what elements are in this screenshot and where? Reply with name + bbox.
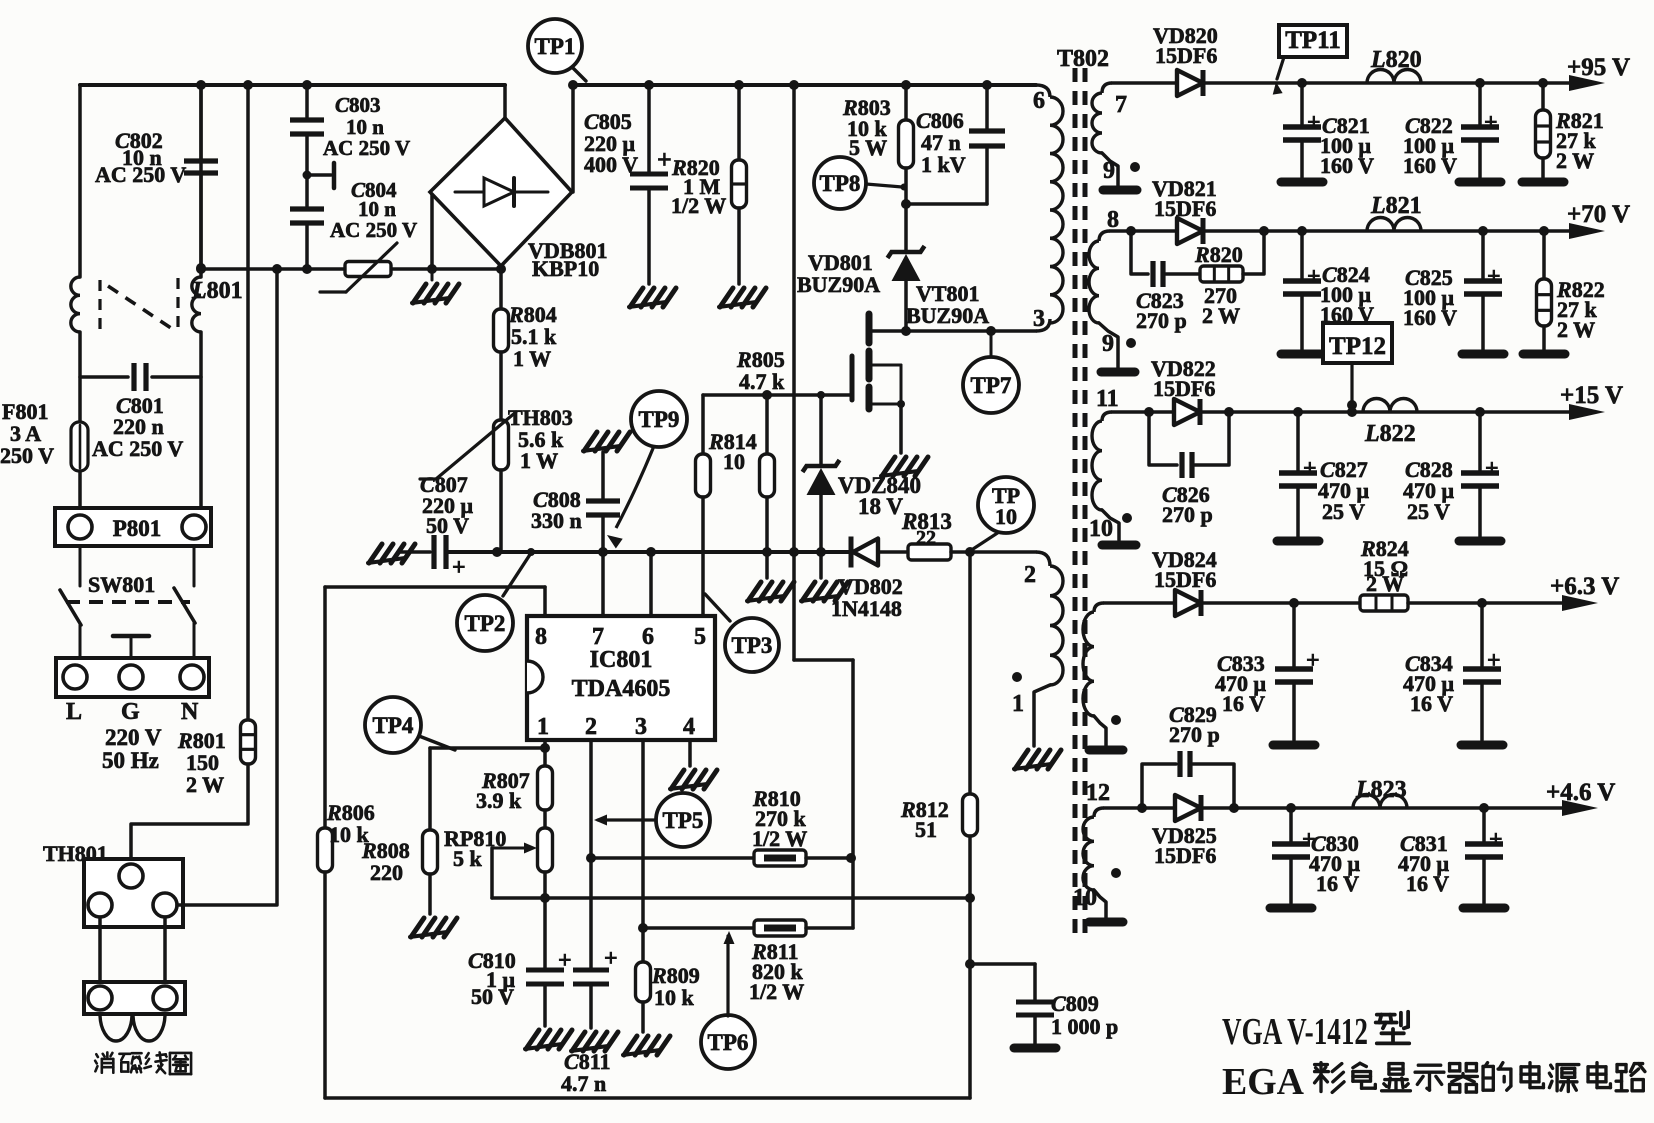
node L801 top of winding b bbox=[196, 263, 206, 273]
label C808 value bbox=[531, 487, 582, 533]
svg-text:TP7: TP7 bbox=[971, 373, 1012, 398]
output arrow +70V bbox=[1569, 223, 1605, 239]
resistor R811 bbox=[754, 920, 806, 936]
node R810 right junction bbox=[846, 853, 856, 863]
label R810 value bbox=[752, 786, 807, 851]
label C824 value bbox=[1320, 262, 1374, 327]
output arrow +15V bbox=[1569, 404, 1605, 420]
wire left column mid bbox=[78, 332, 82, 422]
svg-text:TP4: TP4 bbox=[373, 713, 414, 738]
label L820 bbox=[1370, 47, 1422, 73]
svg-text:12: 12 bbox=[1086, 780, 1110, 806]
wire rail main bbox=[446, 550, 851, 554]
diode VD820 bbox=[1177, 70, 1203, 96]
node drain VD801 junction bbox=[901, 326, 911, 336]
pin 10b label bbox=[1073, 885, 1097, 911]
node rail R814 junction bbox=[762, 547, 772, 557]
wire row2 main bbox=[1203, 229, 1573, 233]
pin 11 label bbox=[1096, 386, 1119, 412]
label C821 value bbox=[1320, 113, 1374, 178]
svg-text:EGA: EGA bbox=[1222, 1061, 1305, 1103]
node pin3 R811 junction bbox=[638, 923, 648, 933]
label mains value bbox=[102, 725, 162, 773]
svg-text:15DF6: 15DF6 bbox=[1154, 843, 1216, 868]
node row5 snubber left bbox=[1137, 803, 1147, 813]
label R813 value bbox=[901, 509, 952, 549]
svg-text:+: + bbox=[1487, 264, 1501, 290]
svg-text:+: + bbox=[452, 555, 466, 581]
wire R812 lower bbox=[968, 836, 972, 1098]
ground winding 10b bbox=[1089, 918, 1123, 927]
svg-text:6: 6 bbox=[642, 624, 654, 650]
node rail VDZ junction bbox=[816, 547, 826, 557]
snubber C823 R820b bbox=[1131, 231, 1264, 287]
wire R809 lower bbox=[641, 1002, 645, 1032]
ground winding 10 bbox=[1102, 541, 1136, 550]
node rail feedback junction bbox=[789, 547, 799, 557]
node row2 snubber right bbox=[1259, 226, 1269, 236]
wire C808 upper bbox=[601, 452, 605, 499]
wire C805 lower bbox=[647, 188, 651, 284]
transformer primary winding 6-3 bbox=[1050, 97, 1063, 323]
node row2 C825 bbox=[1478, 226, 1488, 236]
wire row4 main bbox=[1203, 601, 1360, 605]
svg-text:1N4148: 1N4148 bbox=[831, 596, 902, 621]
diode VDZ840 bbox=[803, 395, 840, 552]
node row1 C822 bbox=[1475, 78, 1485, 88]
svg-text:16 V: 16 V bbox=[1316, 871, 1359, 896]
node row5 C830 bbox=[1286, 803, 1296, 813]
svg-text:KBP10: KBP10 bbox=[532, 256, 599, 281]
label C803 value bbox=[323, 93, 410, 160]
label R820 value bbox=[671, 155, 726, 218]
wire C809 lower bbox=[1033, 1015, 1037, 1044]
ground R820 bbox=[719, 288, 766, 307]
svg-text:7: 7 bbox=[1115, 92, 1127, 118]
node row1 C821 bbox=[1297, 78, 1307, 88]
svg-text:L: L bbox=[66, 699, 82, 725]
label R811 value bbox=[749, 939, 804, 1004]
wire pin2 column bbox=[589, 740, 593, 968]
node feedback R812 junction bbox=[965, 893, 975, 903]
wire row3 main bbox=[1200, 410, 1573, 414]
capacitor C804 bbox=[290, 209, 324, 223]
svg-text:2 W: 2 W bbox=[1556, 148, 1594, 173]
output arrow +6.3V bbox=[1562, 595, 1598, 611]
pin 7 label bbox=[1115, 92, 1127, 118]
svg-text:P801: P801 bbox=[113, 516, 162, 541]
test point TP2 bbox=[457, 548, 535, 651]
svg-text:+15 V: +15 V bbox=[1560, 382, 1623, 409]
svg-text:270 p: 270 p bbox=[1169, 722, 1220, 747]
svg-text:+: + bbox=[1484, 110, 1498, 136]
node pin1 TP4 junction bbox=[540, 743, 550, 753]
resistor R820 bbox=[732, 160, 747, 208]
node AC line junction L801 bbox=[196, 264, 206, 274]
label R812 value bbox=[900, 797, 949, 842]
pin 2 label bbox=[1024, 562, 1036, 588]
wire C802 lower bbox=[199, 173, 203, 268]
svg-text:3.9 k: 3.9 k bbox=[476, 788, 522, 813]
wire rail right bbox=[951, 552, 1050, 566]
wire left column lower bbox=[78, 471, 82, 512]
pin 3 label bbox=[635, 714, 647, 740]
wire TH803 lower bbox=[499, 470, 503, 552]
svg-text:VGA V-1412: VGA V-1412 bbox=[1222, 1011, 1368, 1053]
label C826 value bbox=[1162, 482, 1213, 527]
wire row5 main bbox=[1203, 806, 1566, 810]
wire source to ground bbox=[899, 404, 903, 453]
svg-text:+: + bbox=[1303, 456, 1317, 482]
pin 4 label bbox=[683, 714, 695, 740]
svg-text:330 n: 330 n bbox=[531, 508, 582, 533]
svg-text:TP11: TP11 bbox=[1285, 27, 1341, 54]
node row3 C828 bbox=[1475, 407, 1485, 417]
wire R807-RP810 bbox=[543, 810, 547, 828]
svg-text:2 W: 2 W bbox=[1202, 303, 1240, 328]
test point TP4 bbox=[365, 697, 455, 753]
svg-text:15DF6: 15DF6 bbox=[1153, 376, 1215, 401]
capacitor C809 bbox=[1016, 1002, 1054, 1015]
wire left frame lower bbox=[323, 872, 327, 1098]
wire pin1 lower bbox=[543, 872, 547, 968]
svg-text:8: 8 bbox=[535, 624, 547, 650]
wire R820 lower bbox=[737, 208, 741, 284]
label F801 value bbox=[0, 399, 54, 468]
svg-text:+70 V: +70 V bbox=[1567, 201, 1630, 228]
capacitor C830 bbox=[1270, 808, 1316, 908]
svg-text:15DF6: 15DF6 bbox=[1155, 43, 1217, 68]
label C802 value bbox=[95, 128, 186, 187]
node R803 C806 junction bbox=[901, 199, 911, 209]
ground winding 1 bbox=[1014, 750, 1061, 769]
output arrow +95V bbox=[1569, 75, 1605, 91]
wire pin8 stub bbox=[543, 587, 547, 616]
label VD825 bbox=[1152, 823, 1217, 868]
wire row4 left bbox=[1104, 601, 1175, 605]
svg-text:AC 250 V: AC 250 V bbox=[330, 218, 417, 242]
wire degauss right bbox=[163, 917, 167, 982]
diode VD821 bbox=[1177, 218, 1203, 244]
svg-text:160 V: 160 V bbox=[1403, 305, 1457, 330]
resistor R810 bbox=[754, 850, 806, 866]
terminal G bar bbox=[113, 636, 149, 658]
svg-text:TP9: TP9 bbox=[639, 407, 680, 432]
phase dot winding 9b bbox=[1126, 338, 1136, 348]
wire pin3 column bbox=[641, 740, 645, 962]
potentiometer RP810 bbox=[492, 828, 553, 872]
svg-text:+: + bbox=[657, 145, 672, 174]
svg-text:3: 3 bbox=[1033, 306, 1045, 332]
svg-text:1 kV: 1 kV bbox=[921, 152, 966, 177]
svg-text:AC 250 V: AC 250 V bbox=[323, 136, 410, 160]
node rail R804 junction bbox=[492, 547, 502, 557]
resistor R824 bbox=[1360, 595, 1408, 611]
node row2 C824 bbox=[1297, 226, 1307, 236]
phase dot winding 6v bbox=[1111, 715, 1121, 725]
svg-text:1 W: 1 W bbox=[513, 346, 551, 371]
wire L801 right column bbox=[199, 85, 203, 512]
wire TP4 line bbox=[430, 746, 545, 750]
svg-text:2 W: 2 W bbox=[186, 772, 224, 797]
label L823 bbox=[1355, 777, 1407, 803]
resistor R804 bbox=[494, 309, 509, 352]
svg-text:15DF6: 15DF6 bbox=[1154, 196, 1216, 221]
label C822 value bbox=[1403, 113, 1457, 178]
ground pin4 bbox=[670, 770, 717, 789]
node row4 C834 bbox=[1477, 598, 1487, 608]
wire row4 right bbox=[1408, 601, 1566, 605]
node bridge AC2 junction bbox=[427, 264, 437, 274]
svg-text:10: 10 bbox=[1073, 885, 1097, 911]
svg-text:1 000 p: 1 000 p bbox=[1051, 1014, 1118, 1039]
pin 12 label bbox=[1086, 780, 1110, 806]
node C803 C804 tap bbox=[303, 163, 335, 188]
svg-text:1: 1 bbox=[1012, 691, 1024, 717]
label C829 value bbox=[1169, 702, 1220, 747]
svg-text:5 k: 5 k bbox=[453, 846, 483, 871]
svg-text:160 V: 160 V bbox=[1403, 153, 1457, 178]
capacitor C831 bbox=[1463, 808, 1505, 908]
wire top bus right segment bbox=[573, 85, 1050, 97]
label VD822 bbox=[1151, 356, 1216, 401]
svg-text:+: + bbox=[1306, 648, 1320, 674]
label R809 value bbox=[651, 963, 700, 1010]
degauss coil connector bbox=[84, 982, 185, 1014]
pin 9 label bbox=[1103, 158, 1115, 184]
capacitor C803 bbox=[290, 120, 324, 134]
wire C806 lower bbox=[906, 146, 987, 204]
svg-text:16 V: 16 V bbox=[1410, 691, 1453, 716]
label C807 value bbox=[420, 472, 474, 538]
label T802 bbox=[1057, 46, 1109, 72]
svg-text:TP12: TP12 bbox=[1329, 333, 1386, 360]
node top bus junction R803 bbox=[901, 80, 911, 90]
capacitor C825 bbox=[1462, 231, 1504, 354]
svg-text:16 V: 16 V bbox=[1222, 691, 1265, 716]
label +6.3V bbox=[1550, 573, 1619, 600]
wire rail diode to R813 bbox=[878, 550, 908, 554]
wire left column upper bbox=[78, 85, 82, 277]
pin 2 label bbox=[585, 714, 597, 740]
wire AC line bbox=[201, 267, 501, 271]
node row5 C831 bbox=[1479, 803, 1489, 813]
label C804 value bbox=[330, 178, 417, 242]
degauss coil loops bbox=[100, 1014, 165, 1041]
wire C809 link bbox=[970, 964, 1035, 1000]
pin 3 label bbox=[1033, 306, 1045, 332]
wire R808 lower bbox=[428, 874, 432, 914]
node top bus junction R801 line bbox=[243, 80, 253, 90]
svg-text:3: 3 bbox=[635, 714, 647, 740]
diode VD822 bbox=[1174, 399, 1200, 425]
node gate VDZ junction bbox=[817, 391, 825, 399]
phase dot winding 10b bbox=[1111, 868, 1121, 878]
pin 6 label bbox=[642, 624, 654, 650]
wire R803 upper bbox=[904, 85, 908, 120]
svg-text:18 V: 18 V bbox=[858, 494, 903, 519]
wire pin1 stub bbox=[543, 740, 547, 766]
svg-text:BUZ90A: BUZ90A bbox=[906, 303, 989, 328]
svg-text:51: 51 bbox=[915, 817, 937, 842]
ground R808 bbox=[410, 918, 457, 937]
label VT801 bbox=[906, 281, 989, 328]
resistor R808 bbox=[423, 830, 438, 874]
label +4.6V bbox=[1546, 779, 1615, 806]
wire pin5 link bbox=[794, 552, 853, 928]
svg-text:1: 1 bbox=[537, 714, 549, 740]
label R807 value bbox=[476, 768, 530, 813]
node R812 C809 junction bbox=[965, 959, 975, 969]
label TH803 value bbox=[508, 405, 573, 473]
resistor R809 bbox=[636, 962, 651, 1002]
svg-text:11: 11 bbox=[1096, 386, 1119, 412]
svg-text:5: 5 bbox=[694, 624, 706, 650]
svg-text:15DF6: 15DF6 bbox=[1154, 567, 1216, 592]
wire feedback line bbox=[492, 896, 970, 900]
resistor R805 bbox=[696, 395, 711, 616]
resistor R813 bbox=[908, 544, 951, 560]
svg-text:+: + bbox=[1485, 456, 1499, 482]
capacitor C828 bbox=[1459, 412, 1501, 541]
test point TP12 bbox=[1323, 323, 1392, 410]
label VD821 bbox=[1152, 176, 1217, 221]
fuse F801 bbox=[71, 422, 88, 471]
wire pin4 stub bbox=[688, 740, 692, 766]
svg-text:R820: R820 bbox=[1194, 242, 1243, 267]
svg-text:AC 250 V: AC 250 V bbox=[92, 436, 183, 461]
svg-text:220: 220 bbox=[370, 860, 403, 885]
node row5 snubber right bbox=[1229, 803, 1239, 813]
secondary winding 7-9 bbox=[1092, 83, 1118, 186]
svg-text:SW801: SW801 bbox=[88, 572, 155, 597]
wire R804-TH803 bbox=[499, 352, 503, 420]
label C811 value bbox=[561, 1049, 610, 1096]
switch SW801 link bbox=[66, 600, 190, 604]
wire C811 lower bbox=[589, 984, 593, 1028]
svg-text:10: 10 bbox=[1089, 516, 1113, 542]
wire C802 upper bbox=[199, 85, 203, 159]
wire R811 right bbox=[806, 926, 853, 930]
snubber C829 bbox=[1142, 751, 1234, 808]
pin 8 label bbox=[535, 624, 547, 650]
svg-text:1/2 W: 1/2 W bbox=[752, 826, 807, 851]
ground C805 bbox=[629, 288, 676, 307]
transformer feedback winding 2-1 bbox=[1050, 566, 1063, 685]
wire R820 upper bbox=[737, 85, 741, 160]
wire row2 left bbox=[1110, 229, 1177, 233]
svg-text:AC 250 V: AC 250 V bbox=[95, 162, 186, 187]
node row3 snubber left bbox=[1144, 407, 1154, 417]
wire C805 upper bbox=[647, 85, 651, 172]
svg-text:4.7 n: 4.7 n bbox=[561, 1071, 606, 1096]
wire TH801 return bbox=[177, 269, 277, 905]
pin 6 label bbox=[1033, 88, 1045, 114]
title line 1 bbox=[1222, 1011, 1409, 1053]
wire R804 upper bbox=[499, 269, 503, 309]
label degauss coil bbox=[95, 1052, 191, 1074]
ground C808 bbox=[583, 432, 630, 451]
capacitor C807 bbox=[434, 535, 466, 581]
thermistor TH803 bbox=[420, 412, 516, 479]
resistor R814 bbox=[760, 395, 775, 552]
inductor L823 bbox=[1353, 795, 1407, 809]
inductor L822 bbox=[1363, 399, 1417, 413]
test point TP11 bbox=[1273, 25, 1347, 95]
svg-text:400 V: 400 V bbox=[584, 152, 638, 177]
resistor R822 bbox=[1523, 231, 1565, 354]
label +70V bbox=[1567, 201, 1630, 228]
label SW801 bbox=[88, 572, 155, 597]
ground VT801 source bbox=[881, 457, 928, 476]
label TH801 bbox=[43, 841, 108, 866]
test point TP9 bbox=[607, 391, 687, 549]
label VDZ840 value bbox=[838, 473, 921, 519]
pin 1 label bbox=[537, 714, 549, 740]
node row3 snubber right bbox=[1224, 407, 1234, 417]
svg-text:22: 22 bbox=[916, 527, 936, 549]
label R803 value bbox=[842, 95, 891, 160]
capacitor C827 bbox=[1277, 412, 1319, 541]
label VD802 bbox=[831, 574, 903, 621]
label C805 value bbox=[584, 109, 638, 177]
svg-text:16 V: 16 V bbox=[1406, 871, 1449, 896]
node rail pin6 junction bbox=[646, 547, 656, 557]
wire row1 left bbox=[1112, 81, 1177, 85]
node drain TP7 junction bbox=[986, 326, 996, 336]
wire drain line bbox=[872, 319, 1050, 331]
label C831 value bbox=[1398, 831, 1450, 896]
snubber C826 bbox=[1149, 412, 1229, 478]
label C809 value bbox=[1051, 991, 1118, 1039]
svg-text:2 W: 2 W bbox=[1557, 317, 1595, 342]
ground winding 9b bbox=[1101, 368, 1135, 377]
wire C810 lower bbox=[543, 984, 547, 1026]
label R821 value bbox=[1555, 108, 1604, 173]
svg-text:C803: C803 bbox=[335, 93, 381, 117]
wire C803-C804 link bbox=[305, 134, 309, 206]
label C823 value bbox=[1136, 288, 1187, 333]
svg-text:6: 6 bbox=[1033, 88, 1045, 114]
wire bridge AC2 drop bbox=[430, 192, 434, 269]
test point TP1 bbox=[528, 19, 586, 81]
pin 5 label bbox=[694, 624, 706, 650]
node top bus junction feedback line bbox=[789, 80, 799, 90]
svg-text:1/2 W: 1/2 W bbox=[749, 979, 804, 1004]
svg-text:TP1: TP1 bbox=[535, 34, 576, 59]
svg-text:7: 7 bbox=[592, 624, 604, 650]
resistor R807 bbox=[538, 766, 553, 810]
label C806 value bbox=[916, 108, 966, 177]
svg-text:10: 10 bbox=[995, 504, 1017, 529]
svg-text:L823: L823 bbox=[1355, 777, 1407, 803]
label R822 value bbox=[1556, 277, 1605, 342]
resistor R801 bbox=[241, 720, 256, 764]
svg-text:BUZ90A: BUZ90A bbox=[797, 272, 880, 297]
node row3 TP12 bbox=[1347, 407, 1357, 417]
test point TP8 bbox=[814, 157, 908, 209]
inductor L820 bbox=[1367, 70, 1421, 84]
ground rail left end bbox=[368, 544, 415, 563]
label N terminal bbox=[181, 699, 199, 725]
label R824 value bbox=[1360, 536, 1409, 596]
wire C803 upper bbox=[305, 85, 309, 117]
resistor R812 bbox=[963, 794, 978, 836]
svg-text:TP8: TP8 bbox=[820, 171, 861, 196]
diode VD824 bbox=[1175, 590, 1201, 616]
node row2 snubber left bbox=[1126, 226, 1136, 236]
node rail C808 junction bbox=[598, 547, 608, 557]
